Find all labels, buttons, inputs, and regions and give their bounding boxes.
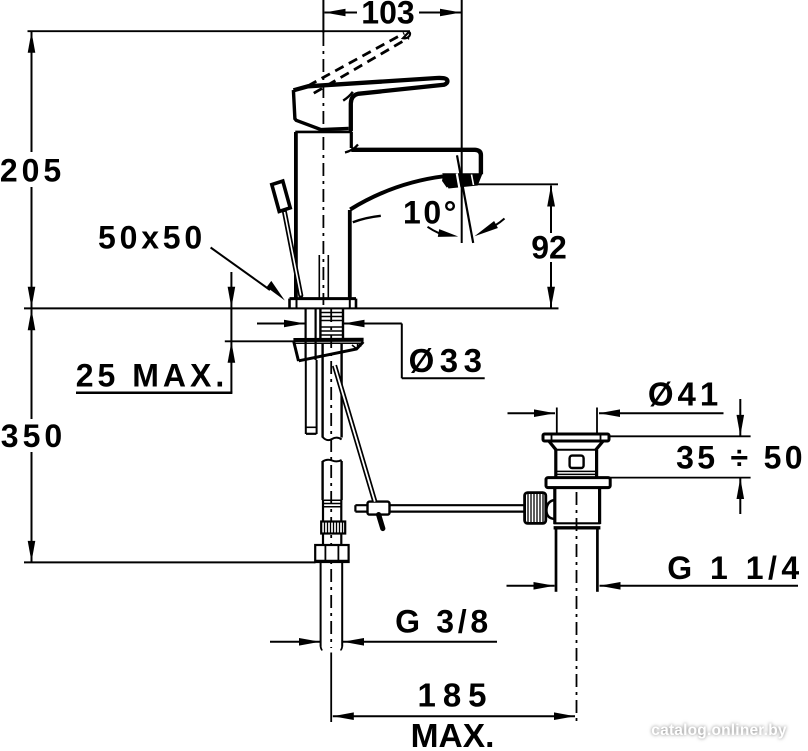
svg-text:catalog.onliner.by: catalog.onliner.by: [651, 722, 787, 739]
svg-text:35 ÷ 50: 35 ÷ 50: [676, 439, 806, 475]
svg-text:185: 185: [417, 677, 493, 714]
svg-text:Ø41: Ø41: [648, 376, 722, 413]
svg-text:92: 92: [531, 230, 567, 266]
svg-text:103: 103: [361, 0, 414, 31]
svg-text:MAX.: MAX.: [411, 718, 495, 751]
svg-text:25 MAX.: 25 MAX.: [76, 358, 228, 394]
svg-text:10°: 10°: [403, 195, 459, 231]
svg-text:G 3/8: G 3/8: [395, 604, 492, 640]
svg-text:Ø33: Ø33: [409, 342, 488, 379]
svg-text:50x50: 50x50: [98, 220, 206, 256]
svg-text:205: 205: [0, 153, 65, 189]
svg-text:350: 350: [1, 418, 66, 454]
svg-text:G 1 1/4: G 1 1/4: [667, 550, 803, 586]
